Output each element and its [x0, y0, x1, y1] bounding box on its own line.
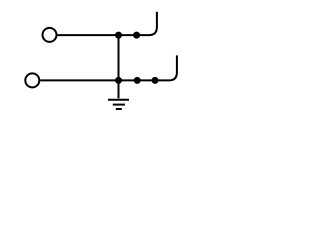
junction dot (lower, at vertical bridge): [115, 77, 122, 84]
wire (upper level horizontal with hook up at right): [58, 12, 157, 35]
ground (PE earth symbol): [108, 100, 129, 109]
junction dot (lower, second): [134, 77, 141, 84]
terminal circle X1 (upper level): [43, 28, 57, 42]
junction dot (upper, at vertical bridge): [115, 32, 122, 39]
terminal circle X2 (lower level): [25, 73, 39, 87]
junction dot (lower, third): [152, 77, 159, 84]
wire (lower level horizontal with hook up at right): [40, 55, 177, 80]
junction dot (upper, second): [133, 32, 140, 39]
wire (vertical bridge between levels down to ground): [118, 35, 120, 98]
